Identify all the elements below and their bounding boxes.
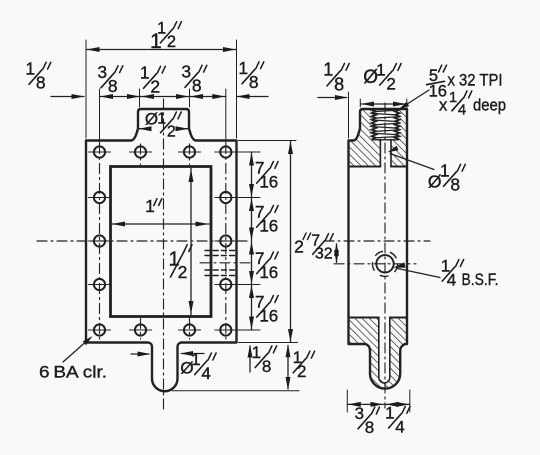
extension line at fourth hole column	[225, 89, 227, 143]
svg-text:2: 2	[386, 74, 395, 93]
overall height dimension line 2in	[290, 141, 292, 343]
svg-text:1: 1	[157, 111, 166, 128]
extension line at second hole column / boss edge	[139, 89, 141, 107]
bolt holes, left column	[94, 192, 105, 203]
margin text 1/8in left	[25, 58, 50, 92]
thread note leader	[401, 90, 429, 108]
hole pitch text 7/16in #2	[255, 202, 278, 235]
svg-text:2: 2	[167, 33, 176, 51]
svg-text:4: 4	[458, 102, 466, 119]
vertical centreline of section view	[384, 103, 386, 408]
svg-text:2: 2	[178, 262, 188, 282]
svg-text:32: 32	[315, 245, 333, 262]
svg-text:1: 1	[385, 403, 394, 422]
hole pitch text 7/16in #1	[255, 158, 278, 191]
svg-text:4: 4	[201, 364, 210, 383]
opening width dimension 1in	[111, 223, 210, 225]
pilot hole walls lower	[378, 318, 380, 378]
opening height dimension 1-1/2in	[190, 168, 192, 315]
spigot length dimension 1/2in	[287, 346, 289, 390]
svg-text:2: 2	[167, 124, 176, 141]
centreline through third hole column	[189, 144, 191, 165]
spacing text 3/8in left	[97, 62, 122, 96]
cross hole text 1/4	[441, 256, 464, 289]
tapped hole thread 5/16 x 32TPI	[372, 110, 400, 140]
svg-text:2: 2	[297, 362, 306, 381]
bottom margin text 1/8in	[252, 343, 277, 376]
section width text 1/4in	[385, 403, 410, 436]
front view: flange plate outline	[86, 109, 237, 391]
svg-text:8: 8	[108, 76, 118, 96]
svg-text:3: 3	[355, 404, 364, 423]
pilot hole leader dia 1/8	[390, 154, 434, 170]
boss diameter dimension arrows	[138, 128, 149, 130]
svg-text:x: x	[439, 97, 448, 115]
hidden lines of side tapped hole seen through wall	[205, 250, 238, 252]
overall width text 1-1/2in	[150, 30, 162, 53]
svg-text:16: 16	[259, 306, 278, 325]
cross hole leader 1/4 BSF	[397, 268, 441, 277]
centreline through right hole column	[225, 144, 227, 340]
bolt holes, top row (6BA clearance)	[94, 146, 105, 157]
thread circle of cross hole (dashed)	[372, 251, 397, 276]
spacing text 1/2in centre	[140, 62, 165, 96]
overall width dimension 1-1/2in: extension lines	[85, 40, 87, 138]
svg-text:8: 8	[365, 418, 374, 437]
svg-text:2: 2	[150, 77, 160, 97]
step text 1/8in	[323, 60, 349, 95]
svg-text:1: 1	[376, 60, 385, 79]
extension of section left edge	[348, 92, 350, 138]
svg-text:8: 8	[36, 73, 46, 93]
extension line at first hole column	[99, 89, 101, 143]
opening width text 1in	[145, 196, 155, 216]
hole-spacing dimension line row	[51, 96, 84, 98]
pilot hole dia 1/8 walls upper	[379, 140, 381, 167]
bolt holes, right column	[220, 192, 231, 203]
horizontal centreline of front view	[37, 240, 251, 242]
sectioned lower block hatching right	[388, 318, 407, 380]
thread bottom	[373, 139, 399, 141]
section bottom dimension line 3/8 and 1/4	[347, 403, 384, 405]
svg-text:8: 8	[334, 74, 344, 94]
overall height extension lines	[239, 140, 297, 142]
svg-text:6 BA clr.: 6 BA clr.	[39, 363, 107, 382]
leader arrow for bolt holes	[63, 339, 90, 363]
lower block top edge	[349, 317, 379, 319]
svg-text:1: 1	[449, 89, 457, 106]
svg-text:16: 16	[259, 172, 278, 191]
svg-text:1: 1	[191, 350, 200, 369]
svg-text:1: 1	[140, 62, 150, 82]
overall height text 2in	[294, 236, 304, 256]
svg-text:1: 1	[440, 160, 450, 180]
boss diameter text dia 1/2in	[145, 110, 181, 141]
thread note fraction 5/16	[427, 65, 447, 100]
svg-text:1: 1	[157, 20, 166, 38]
svg-text:4: 4	[447, 270, 456, 289]
offset text 7/32in	[311, 232, 333, 262]
svg-text:8: 8	[249, 72, 259, 92]
centreline through second hole column	[140, 144, 142, 165]
sectioned lower block hatching left	[349, 318, 381, 380]
hole row extension lines	[238, 151, 261, 153]
svg-text:3: 3	[97, 62, 107, 82]
spigot bottom extension line	[172, 390, 299, 392]
cross tapped hole 1/4 BSF	[376, 255, 393, 272]
centreline of side tapped hole	[200, 262, 250, 264]
hole pitch text 7/16in #4	[255, 292, 278, 325]
section bottom dimensions extension lines	[346, 390, 348, 412]
overall width dimension line	[86, 49, 237, 51]
vertical centreline of front view	[163, 99, 165, 410]
svg-text:8: 8	[262, 357, 271, 376]
bottom margin dimension 1/8in	[249, 346, 251, 372]
hatching of sectioned upper block right part	[391, 110, 407, 167]
svg-text:1: 1	[323, 60, 333, 80]
spacing text 3/8in right	[181, 61, 206, 95]
hatching of sectioned upper block left part	[349, 110, 381, 167]
spigot diameter text dia 1/4in	[180, 350, 216, 383]
svg-text:1: 1	[145, 196, 155, 216]
step dimension 1/8in of section view	[318, 97, 347, 99]
svg-text:x 32 TPI: x 32 TPI	[448, 72, 503, 90]
svg-text:8: 8	[450, 175, 460, 195]
svg-text:B.S.F.: B.S.F.	[462, 271, 499, 289]
centreline through left hole column	[99, 144, 101, 340]
spigot diameter arrows	[131, 353, 149, 355]
svg-text:3: 3	[181, 61, 191, 81]
extension line at third hole column / boss edge	[189, 89, 191, 107]
upper block lower edge	[349, 166, 381, 168]
svg-text:4: 4	[395, 417, 404, 436]
section width text 3/8in	[355, 404, 380, 437]
svg-text:1: 1	[252, 343, 261, 362]
boss dia text dia 1/2in	[363, 60, 401, 93]
svg-text:16: 16	[259, 216, 278, 235]
opening height text 1-1/2in	[168, 248, 187, 282]
svg-text:Ø: Ø	[145, 110, 158, 129]
offset dimension 7/32in arrows	[336, 244, 338, 262]
svg-text:16: 16	[259, 263, 278, 282]
hole pitch dimension line 7/16 stack	[251, 152, 253, 330]
pilot hole rounded end	[379, 378, 390, 384]
spigot length text 1/2in	[293, 348, 315, 381]
section view: body outline	[349, 109, 408, 389]
svg-text:1: 1	[238, 58, 248, 78]
svg-text:8: 8	[192, 76, 202, 96]
svg-text:deep: deep	[473, 97, 506, 115]
svg-text:1: 1	[25, 58, 35, 78]
pilot hole text dia 1/8in	[428, 160, 465, 194]
cross hole centreline	[334, 263, 416, 265]
main horizontal centreline of section view	[324, 240, 430, 242]
hole pitch text 7/16in #3	[255, 249, 278, 282]
boss diameter dimension dia 1/2in of section view	[361, 103, 407, 105]
margin text 1/8in right	[238, 58, 263, 92]
sectioned spigot tip hatching	[370, 374, 400, 389]
bolt holes, bottom row	[94, 324, 105, 335]
front view: inner rectangular opening	[111, 167, 212, 317]
